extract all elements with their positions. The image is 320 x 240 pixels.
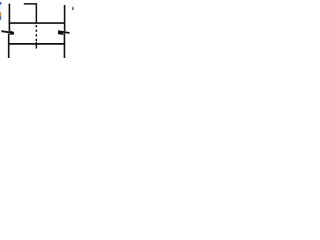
wire: upper horizontal rail [9, 22, 65, 24]
cropped icon sliver at left edge (faint light blue 2) [0, 10, 1, 12]
wire: top-left L-shaped wire into switch linkage [24, 4, 37, 24]
wire: left vertical lower segment [8, 34, 10, 58]
wire: linkage stub below lower rail [35, 42, 37, 49]
wire: left vertical upper segment [8, 4, 10, 32]
switch S2 blade arrowhead [58, 31, 64, 35]
cropped icon sliver at left edge (blue) [0, 2, 1, 5]
wire: right vertical upper segment [64, 5, 66, 31]
switch S1 blade arrowhead [10, 31, 14, 35]
cropped icon sliver at left edge (orange) [0, 12, 1, 15]
wire: right vertical lower segment [63, 33, 65, 58]
cropped icon sliver at left edge (blue 2) [0, 16, 1, 20]
cropped icon sliver at left edge (faint light blue) [0, 6, 1, 9]
background [0, 0, 75, 61]
mechanical linkage: dashed coupling line between switch poles [35, 25, 37, 41]
switch S2 blade (right pole) [58, 31, 69, 33]
cropped marker top-right (orange over navy) [72, 7, 74, 9]
switch S1 blade (left pole) [1, 31, 10, 32]
wire: lower horizontal rail [8, 43, 65, 45]
